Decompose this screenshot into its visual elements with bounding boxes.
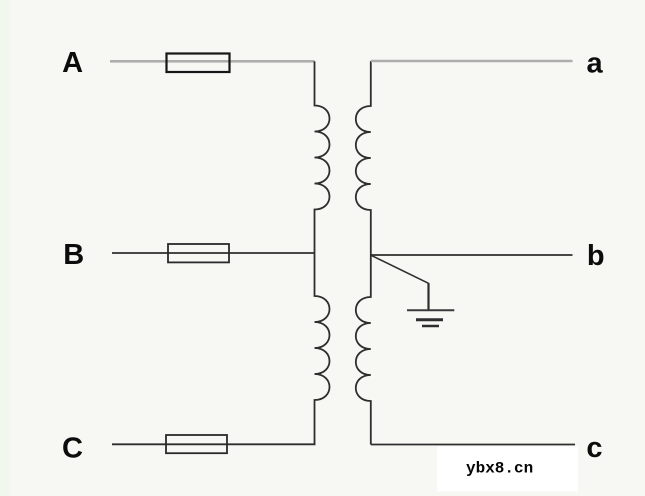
ground bar 3 [422,325,439,328]
fuse F1 [167,54,230,73]
svg-text:C: C [62,433,83,465]
watermark box [437,447,578,492]
wire c output [371,444,575,446]
ground bar 2 [416,318,443,321]
left edge tint [0,0,10,496]
svg-text:ybx8.cn: ybx8.cn [466,460,533,478]
wire A feed (gray) [110,60,315,63]
ground bar 1 [407,309,454,311]
svg-text:A: A [62,47,83,79]
wire neutral diagonal to ground [371,255,429,283]
fuse F2 [168,244,229,262]
ground stem [427,283,429,310]
wire B feed [112,252,315,254]
svg-text:c: c [586,432,602,464]
wire a output (gray) [371,60,573,63]
wire b output [371,254,573,256]
fuse F3 [166,435,227,453]
primary winding (left coil) [315,61,330,444]
svg-text:B: B [63,239,84,271]
svg-text:b: b [587,240,605,272]
secondary winding (right coil) [356,61,371,445]
svg-text:a: a [587,48,604,80]
wire C feed [112,443,316,445]
